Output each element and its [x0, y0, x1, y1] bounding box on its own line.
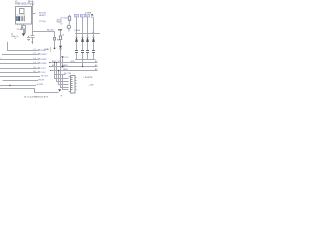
wires diodes to caps	[77, 42, 94, 51]
wire RST vertical	[33, 3, 55, 44]
wires caps to bus	[77, 53, 94, 60]
svg-text:+ SORTIE: + SORTIE	[83, 77, 93, 79]
net label small box left	[57, 20, 61, 23]
fan wire 5	[63, 75, 69, 90]
wire row4	[0, 63, 38, 65]
svg-text:— 12V: — 12V	[87, 85, 94, 87]
capacitor C2 on RST line	[31, 36, 35, 38]
svg-text:L3: L3	[34, 58, 36, 60]
transistor Q1 circle	[67, 25, 70, 28]
svg-text:D1-D4: D1-D4	[75, 30, 80, 32]
junction dot grid big	[62, 66, 64, 68]
dot inside Y1	[22, 27, 23, 28]
wire row3	[1, 58, 38, 61]
hatched block 3 inside U1	[21, 16, 23, 21]
svg-text:J1 CON: J1 CON	[64, 73, 72, 75]
power arrow stub	[62, 59, 64, 67]
junction dot chain	[54, 48, 56, 50]
fan wire 1	[55, 63, 69, 79]
wire row2	[3, 53, 38, 56]
svg-text:VCC: VCC	[64, 57, 69, 59]
svg-text:A3: A3	[95, 68, 97, 71]
net label boxes top right	[74, 14, 89, 17]
capacitor C3	[27, 36, 30, 41]
junction dot column2	[82, 66, 83, 67]
capacitor C6 plates	[75, 51, 78, 53]
svg-text:L2: L2	[34, 53, 36, 55]
diode D1	[75, 37, 78, 42]
svg-text:14 7 2 4-20 MA BOUCLE 5V: 14 7 2 4-20 MA BOUCLE 5V	[24, 96, 49, 99]
svg-text:R81K: R81K	[63, 65, 68, 67]
svg-text:L6: L6	[34, 71, 36, 73]
connector J1 box	[71, 76, 76, 94]
svg-text:R4: R4	[57, 40, 59, 42]
svg-text:C1 22p: C1 22p	[39, 21, 47, 23]
wire bottom pin U1	[23, 24, 25, 26]
resistor R4 second vertical	[60, 30, 62, 36]
wire row5	[0, 68, 38, 70]
crystal X1 top middle	[69, 15, 71, 22]
ground symbol bottom middle	[58, 89, 61, 92]
svg-text:ROW2: ROW2	[40, 54, 47, 56]
svg-text:C5 100n: C5 100n	[60, 18, 69, 20]
svg-text:C3: C3	[31, 41, 33, 43]
grid line A	[50, 62, 98, 64]
capacitor C9 plates	[92, 51, 95, 53]
wire Y1 to ground	[23, 29, 25, 33]
inner square of U1	[20, 9, 25, 14]
svg-text:VCC: VCC	[57, 21, 62, 23]
junction dot grid 1	[54, 62, 55, 63]
connector J1 internal pins	[71, 78, 73, 90]
column wire D1	[76, 17, 78, 37]
svg-text:RX IN: RX IN	[39, 79, 45, 81]
junction dot grid 2	[56, 62, 57, 63]
column wire D2	[82, 17, 84, 37]
svg-text:L4: L4	[34, 62, 36, 64]
grid line end ticks	[49, 62, 50, 63]
capacitor C8 plates	[86, 51, 89, 53]
svg-text:COL1: COL1	[40, 68, 46, 70]
bus wire top right	[75, 33, 100, 35]
svg-text:R71K: R71K	[52, 61, 57, 63]
svg-text:RESET: RESET	[39, 15, 47, 17]
column wire D3	[87, 17, 89, 37]
capacitor C7 plates	[81, 51, 84, 53]
svg-text:L1: L1	[34, 49, 36, 51]
hatched block 1 inside U1	[16, 16, 18, 21]
svg-text:G GND: G GND	[37, 84, 44, 86]
svg-text:REV A: REV A	[28, 0, 34, 3]
svg-text:TX OUT: TX OUT	[41, 75, 49, 77]
LED1 filled on R4 line	[59, 46, 62, 49]
svg-text:SCL: SCL	[58, 61, 62, 63]
wire riser left	[8, 42, 38, 51]
wire row7	[0, 76, 40, 78]
svg-text:ROW4: ROW4	[40, 63, 47, 65]
svg-text:A1: A1	[95, 60, 97, 63]
fan wire 2	[57, 63, 69, 82]
component Y1 below U1	[22, 26, 26, 30]
svg-text:L5: L5	[34, 67, 36, 69]
wire pin right U1 top	[32, 16, 33, 18]
svg-text:A2: A2	[95, 64, 97, 67]
IC U1 box	[16, 7, 32, 25]
grid line C	[51, 70, 98, 72]
svg-text:R91K: R91K	[63, 69, 68, 71]
svg-text:R5 4K7: R5 4K7	[47, 30, 55, 32]
power arrow symbol	[61, 55, 63, 58]
wire row8	[3, 80, 39, 82]
wire column2 long	[82, 53, 84, 67]
junction dot row9	[9, 85, 10, 86]
grid line B	[50, 66, 98, 68]
ground triangle below Y1	[22, 33, 25, 36]
U1 bottom pin ticks	[18, 24, 22, 25]
resistor chain R3	[54, 32, 56, 38]
wire pin right U1 bottom	[32, 21, 33, 23]
fan wire 3	[59, 71, 69, 85]
connector left pin stubs	[69, 77, 71, 92]
junction dot grid 3	[58, 70, 59, 71]
svg-text:Y1 4M: Y1 4M	[16, 29, 22, 31]
ground bus right	[75, 59, 96, 61]
diode D4	[92, 37, 95, 42]
component F1 narrow top right	[91, 14, 93, 17]
wire row10	[0, 89, 59, 93]
hatched block 2 inside U1	[18, 16, 20, 21]
wire row6	[0, 72, 38, 74]
svg-text:COL2: COL2	[40, 72, 46, 74]
component C2 vertical	[24, 29, 26, 34]
bundle row end symbols	[38, 50, 40, 73]
svg-text:J2 HDR: J2 HDR	[85, 12, 92, 14]
column wire D4	[93, 18, 95, 37]
connector right pin stubs	[75, 78, 77, 90]
svg-text:AT89 S8253 PLCC: AT89 S8253 PLCC	[15, 2, 35, 5]
svg-text:MCU CORE: MCU CORE	[17, 14, 27, 16]
diode D2	[81, 37, 84, 42]
wire RST stub	[33, 13, 36, 15]
svg-text:ROW3: ROW3	[40, 59, 47, 61]
svg-text:4x: 4x	[92, 32, 94, 34]
faint blob left of chain	[50, 47, 51, 52]
vertical divider inside U1	[23, 16, 26, 22]
grid line D	[55, 74, 66, 76]
fan wire 4	[61, 71, 69, 88]
diode D3	[86, 37, 89, 42]
svg-text:ROW1: ROW1	[40, 50, 47, 52]
wire row9	[0, 85, 36, 87]
R4 top bar	[58, 28, 62, 31]
